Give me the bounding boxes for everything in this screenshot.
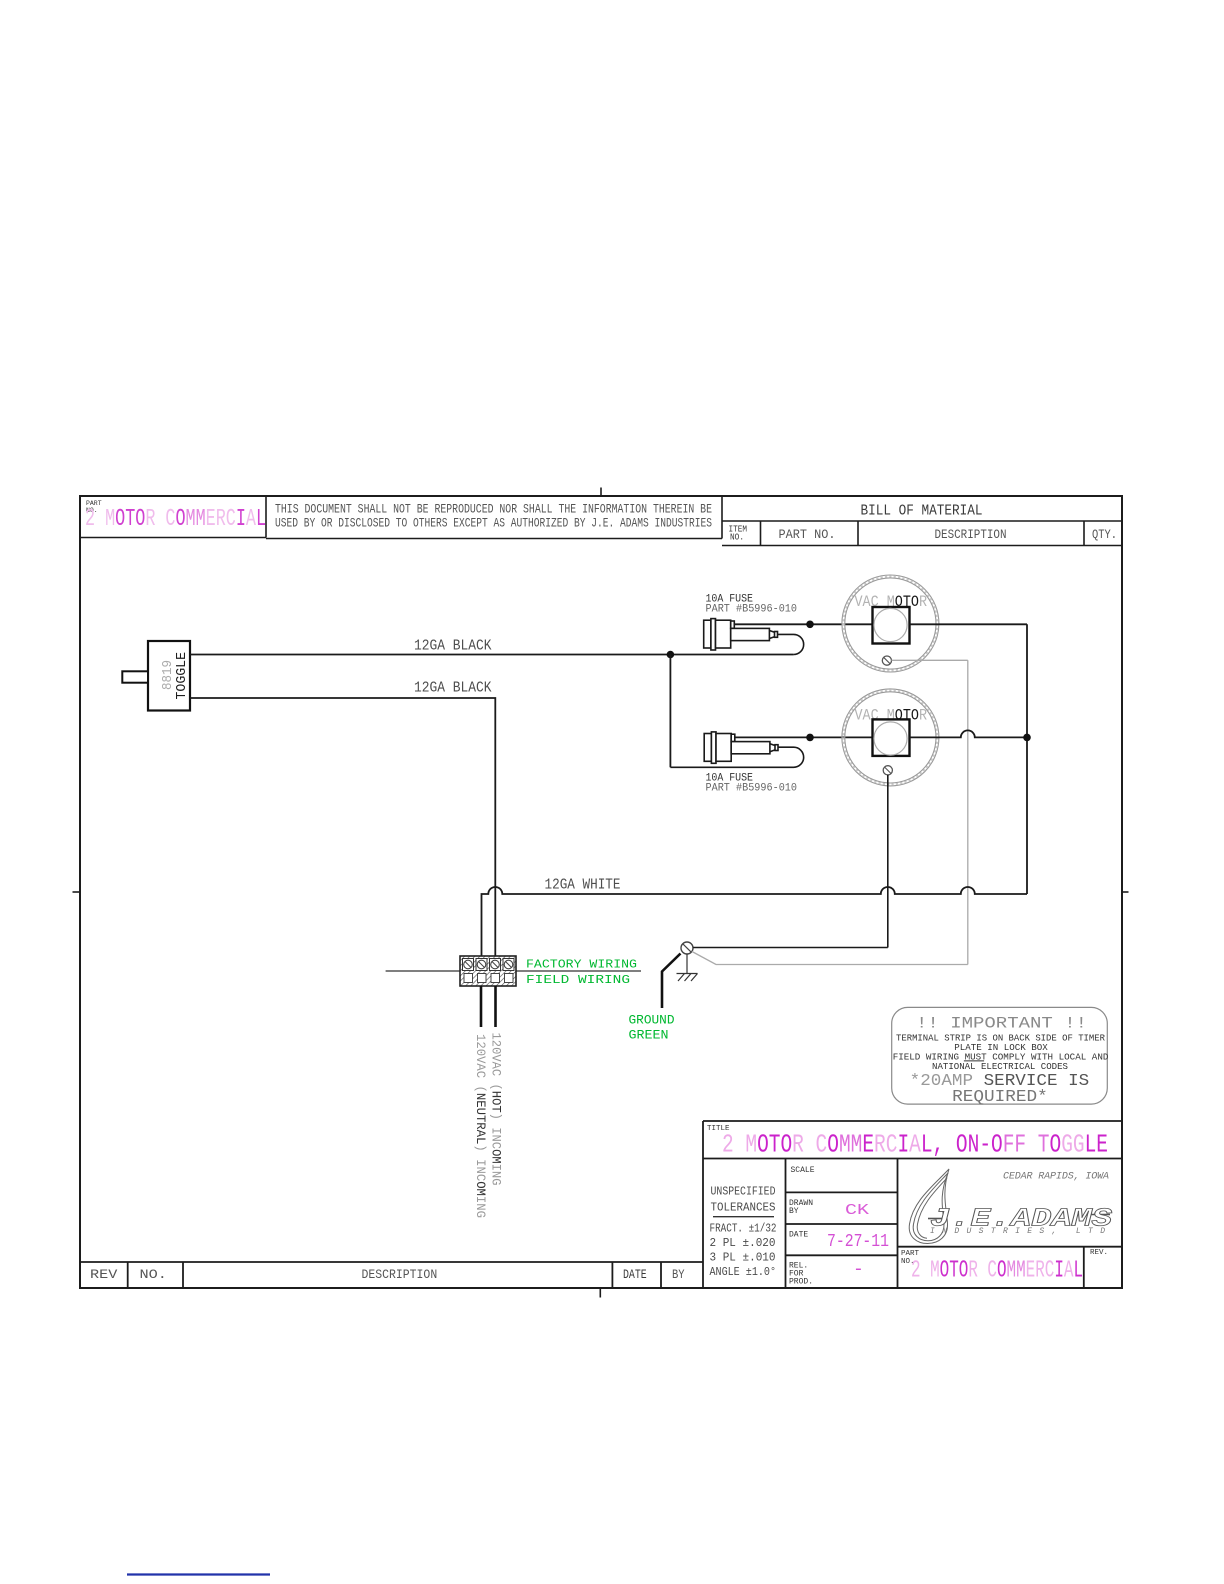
svg-text:DESCRIPTION: DESCRIPTION <box>935 528 1007 542</box>
motor M1 winding square <box>873 607 910 644</box>
svg-text:TOLERANCES: TOLERANCES <box>711 1201 776 1215</box>
terminal strip TB1 <box>386 970 460 972</box>
fuse F2 input loop from node A <box>670 747 803 767</box>
svg-text:-: - <box>853 1260 864 1280</box>
svg-text:12GA BLACK: 12GA BLACK <box>414 638 492 655</box>
motor M2 ground wire (black) down to ground screw <box>887 775 889 948</box>
svg-text:FIELD WIRING: FIELD WIRING <box>526 973 630 987</box>
centering tick bottom <box>599 1288 601 1298</box>
motor M2 output wire with hop over gray bus <box>910 730 1028 737</box>
ground wire gray from screw to gray bus <box>692 952 968 965</box>
wire 12GA WHITE horizontal with hops <box>482 887 1028 956</box>
centering tick left <box>73 891 82 893</box>
svg-text:CK: CK <box>845 1202 869 1219</box>
svg-text:PROD.: PROD. <box>789 1278 813 1287</box>
toggle handle <box>122 671 148 682</box>
svg-text:NATIONAL ELECTRICAL CODES: NATIONAL ELECTRICAL CODES <box>932 1061 1068 1072</box>
svg-text:FACTORY WIRING: FACTORY WIRING <box>526 958 637 972</box>
svg-text:BY: BY <box>789 1207 799 1216</box>
svg-text:REV.: REV. <box>1090 1249 1108 1257</box>
svg-text:2 PL ±.020: 2 PL ±.020 <box>710 1236 776 1250</box>
svg-text:THIS DOCUMENT SHALL NOT BE REP: THIS DOCUMENT SHALL NOT BE REPRODUCED NO… <box>275 502 712 517</box>
J.E.Adams water drop logo <box>909 1169 949 1244</box>
wire: toggle bottom output (12GA BLACK) going right then down to terminal strip <box>190 698 495 956</box>
svg-text:3 PL ±.010: 3 PL ±.010 <box>710 1251 776 1265</box>
motor M2 (VAC MOTOR) <box>842 689 939 786</box>
svg-text:FRACT. ±1/32: FRACT. ±1/32 <box>710 1222 777 1236</box>
svg-text:12GA WHITE: 12GA WHITE <box>545 877 621 894</box>
motor M2 winding square <box>873 719 910 756</box>
svg-text:ANGLE ±1.0°: ANGLE ±1.0° <box>710 1265 777 1279</box>
motor M1 (VAC MOTOR) <box>842 575 939 672</box>
fuse F1 tail wire and u-turn loop <box>778 634 804 654</box>
svg-text:QTY.: QTY. <box>1092 528 1117 542</box>
wire: toggle top output to fuse loop (12GA BLACK) <box>190 654 794 656</box>
junction node A <box>667 651 675 659</box>
svg-text:REQUIRED*: REQUIRED* <box>952 1088 1048 1107</box>
junction dot right bus / motor2 output <box>1023 734 1031 742</box>
svg-text:2 MOTOR COMMERCIAL: 2 MOTOR COMMERCIAL <box>911 1257 1083 1284</box>
svg-text:GROUND: GROUND <box>629 1013 675 1028</box>
motor M2 inner circle <box>874 722 907 755</box>
svg-text:DATE: DATE <box>789 1231 808 1240</box>
svg-text:USED BY OR DISCLOSED TO OTHERS: USED BY OR DISCLOSED TO OTHERS EXCEPT AS… <box>275 516 712 531</box>
J.E.ADAMS logotype <box>928 1218 944 1220</box>
svg-text:BY: BY <box>672 1268 685 1282</box>
svg-text:7-27-11: 7-27-11 <box>827 1232 889 1252</box>
svg-text:2 MOTOR COMMERCIAL: 2 MOTOR COMMERCIAL <box>85 506 266 533</box>
motor M1 inner circle <box>874 608 907 641</box>
junction dot fuse1-motor1 <box>806 621 814 629</box>
motor M1 ground wire (gray) to vertical <box>892 659 968 661</box>
svg-text:PART #B5996-010: PART #B5996-010 <box>706 604 798 616</box>
junction dot fuse2-motor2 <box>806 734 814 742</box>
svg-text:SCALE: SCALE <box>791 1166 815 1175</box>
svg-text:REV: REV <box>90 1268 118 1282</box>
svg-text:NO.: NO. <box>730 533 744 543</box>
fuse F2 output wire to motor 2 <box>735 736 873 738</box>
fuse F1 output wire to motor 1 <box>734 623 872 625</box>
ground screw <box>681 942 693 954</box>
bill of material table <box>722 521 1122 546</box>
svg-text:120VAC (NEUTRAL) INCOMING: 120VAC (NEUTRAL) INCOMING <box>473 1034 488 1218</box>
blue footer line <box>127 1573 270 1575</box>
incoming hot wire (thick) <box>494 986 497 1027</box>
svg-text:2 MOTOR COMMERCIAL, ON-OFF TOG: 2 MOTOR COMMERCIAL, ON-OFF TOGGLE <box>722 1130 1108 1160</box>
gray ground bus vertical <box>967 660 969 964</box>
ground wire black from screw to motor2 wire <box>693 947 888 949</box>
svg-text:INDUSTRIES, LTD: INDUSTRIES, LTD <box>930 1227 1105 1236</box>
drawing border frame <box>80 496 1122 1288</box>
ground green wire (thick) <box>662 954 681 1009</box>
motor M1 ground terminal <box>882 656 891 665</box>
motor M1 output wire to right bus <box>910 623 1028 625</box>
svg-text:BILL OF MATERIAL: BILL OF MATERIAL <box>861 503 983 520</box>
centering tick right <box>1122 891 1129 893</box>
svg-text:CEDAR RAPIDS, IOWA: CEDAR RAPIDS, IOWA <box>1003 1172 1109 1183</box>
fuse F2 (10A FUSE PART #B5996-010) <box>704 732 778 763</box>
svg-text:TOGGLE: TOGGLE <box>174 652 190 700</box>
notice box <box>266 496 722 539</box>
bottom revision strip <box>80 1262 703 1288</box>
svg-text:12GA BLACK: 12GA BLACK <box>414 680 492 697</box>
svg-text:PART #B5996-010: PART #B5996-010 <box>706 783 798 795</box>
incoming neutral wire (thick) <box>480 986 483 1027</box>
ground symbol <box>677 954 698 981</box>
neutral bus: right vertical from motor1 wire down <box>1026 624 1028 894</box>
svg-text:DATE: DATE <box>623 1268 647 1282</box>
svg-text:NO.: NO. <box>140 1268 167 1282</box>
svg-text:UNSPECIFIED: UNSPECIFIED <box>711 1184 776 1198</box>
motor M2 ground terminal <box>883 766 892 775</box>
svg-text:120VAC (HOT) INCOMING: 120VAC (HOT) INCOMING <box>489 1033 504 1186</box>
important note box <box>892 1007 1108 1104</box>
svg-text:!! IMPORTANT !!: !! IMPORTANT !! <box>916 1015 1087 1033</box>
toggle switch 8819 <box>148 641 190 711</box>
svg-text:DESCRIPTION: DESCRIPTION <box>362 1268 438 1282</box>
fuse F1 (10A FUSE PART #B5996-010) <box>704 619 778 650</box>
centering tick top <box>600 488 602 498</box>
svg-text:PART NO.: PART NO. <box>779 528 836 542</box>
part no. box (top left) <box>80 496 266 538</box>
wire: node A down to fuse 2 input <box>669 655 671 768</box>
title block <box>703 1121 1122 1288</box>
svg-text:GREEN: GREEN <box>629 1028 669 1043</box>
